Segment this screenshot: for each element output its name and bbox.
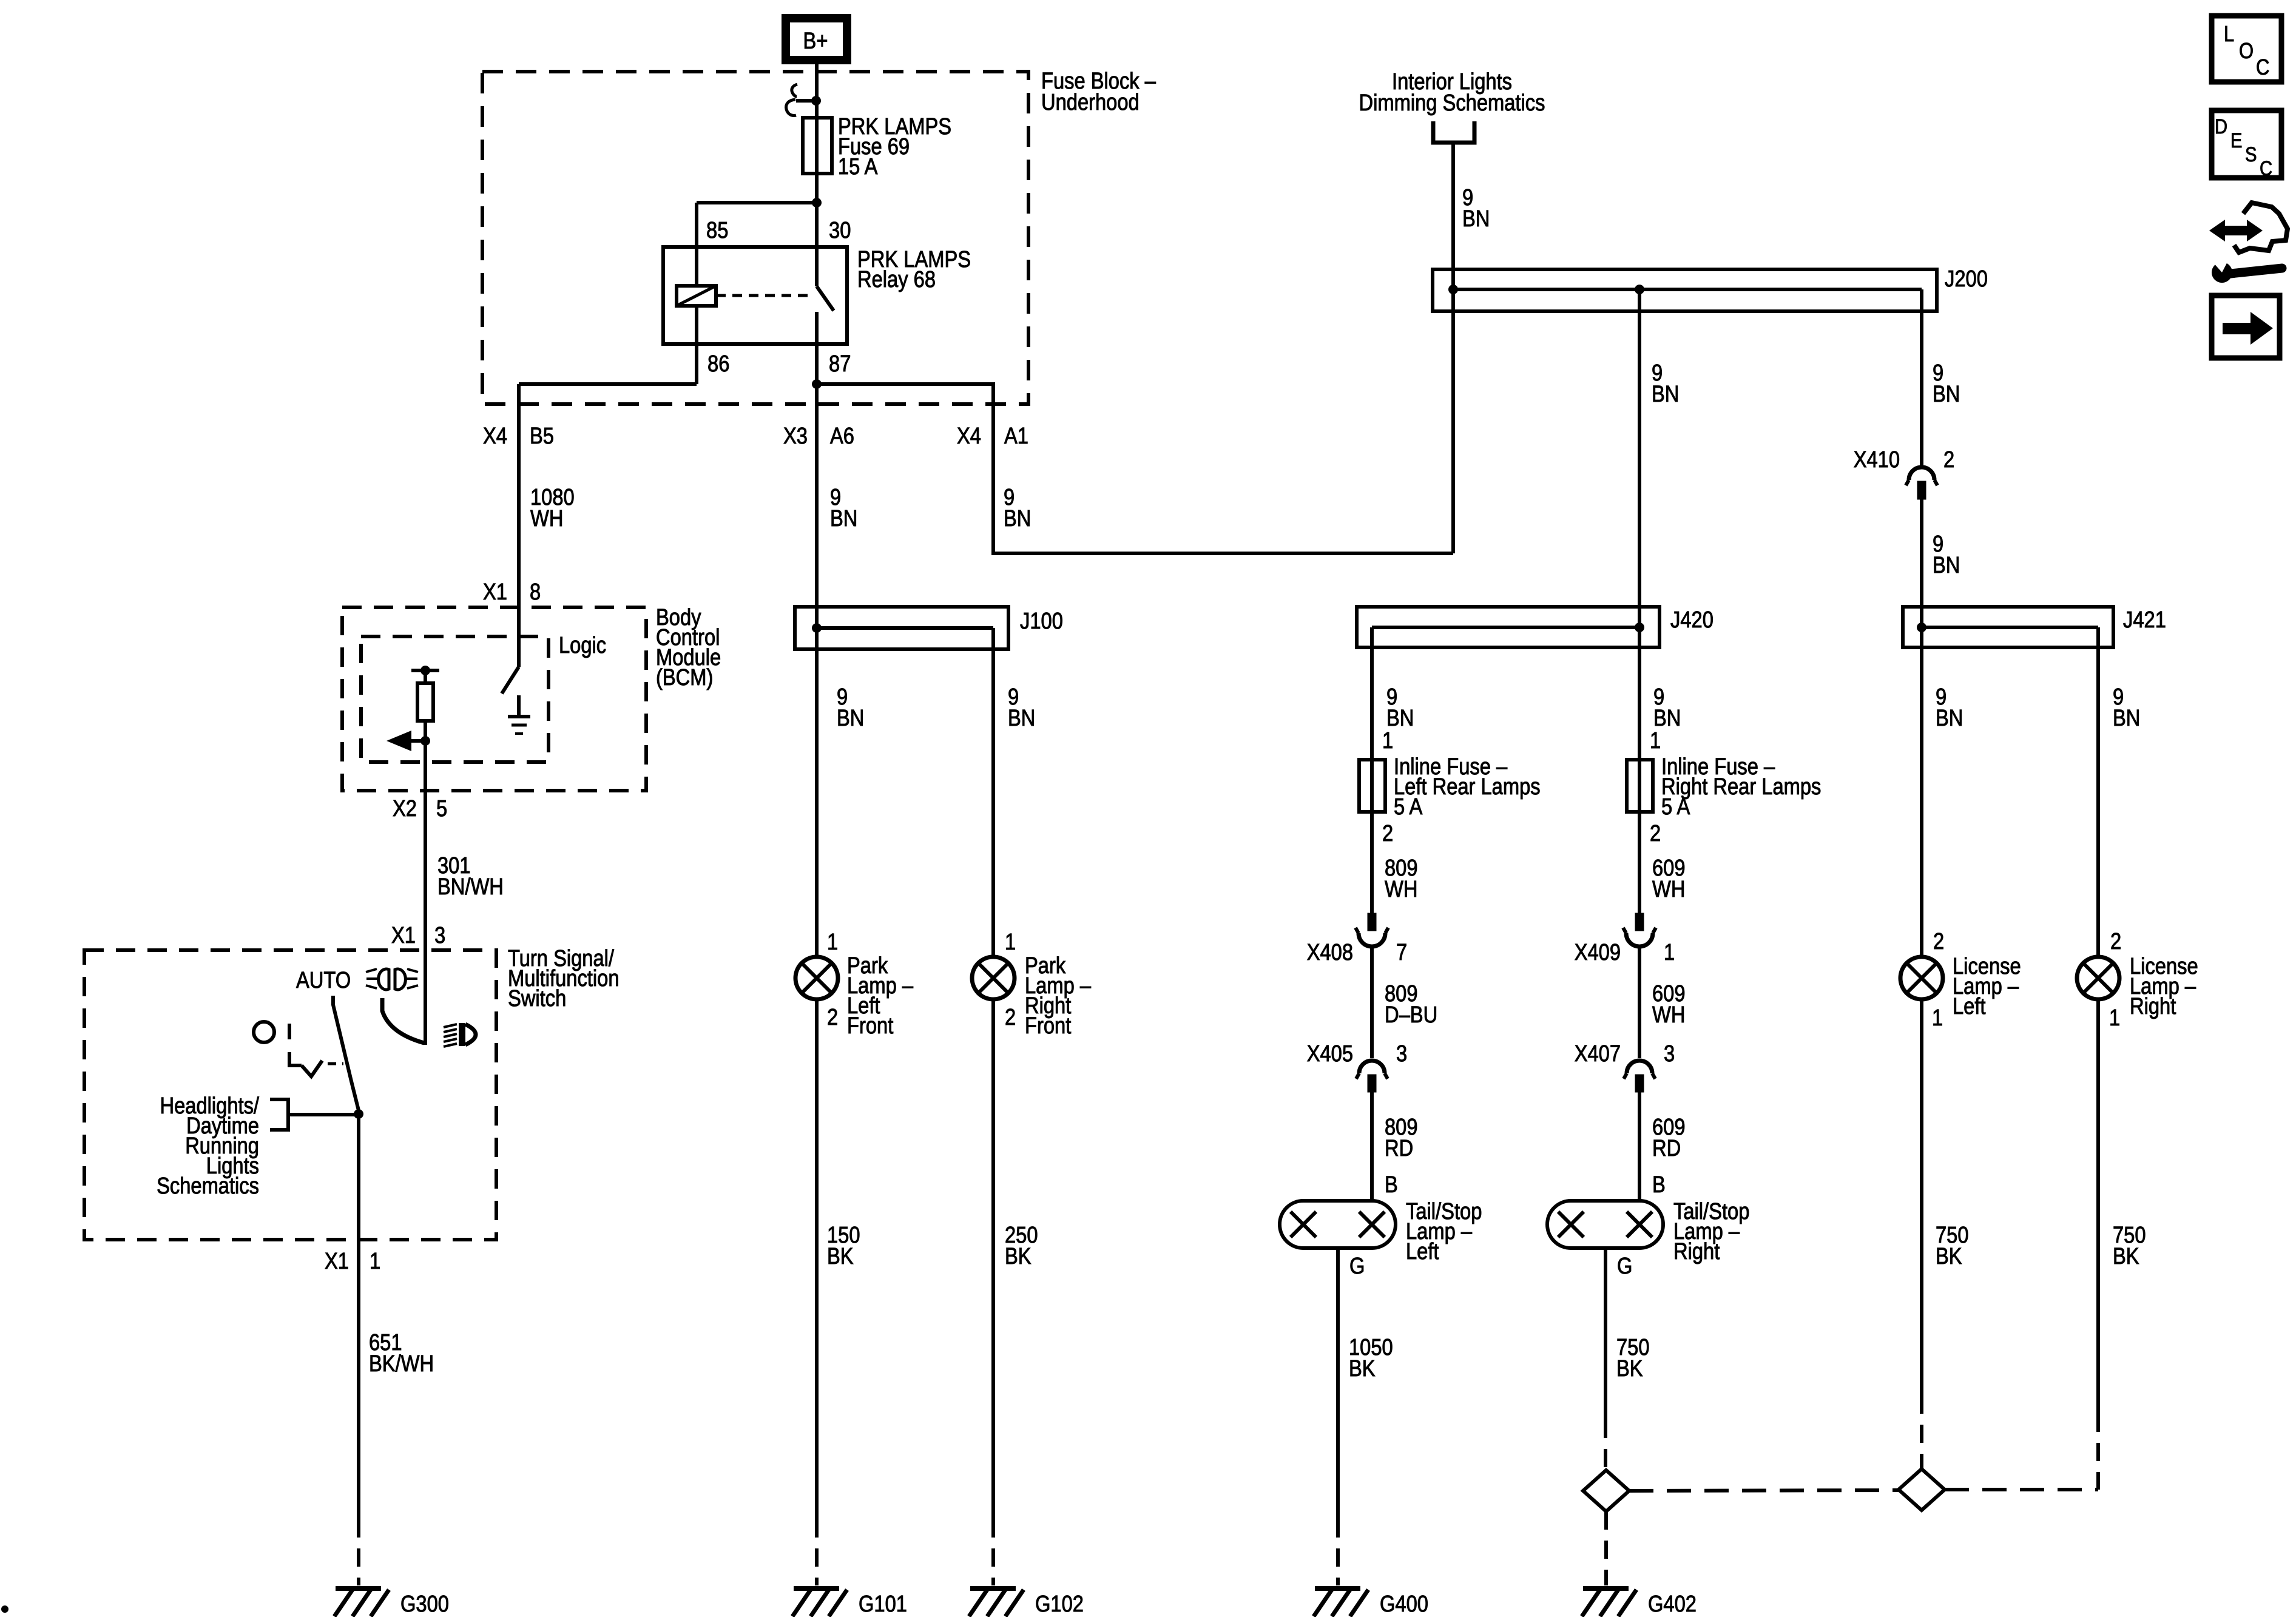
svg-text:BN: BN (1933, 382, 1960, 407)
pin 1 label right inline fuse (1650, 728, 1661, 754)
svg-text:WH: WH (1652, 1002, 1685, 1028)
svg-text:85: 85 (706, 218, 728, 243)
ground net diamond license (1899, 1469, 1945, 1510)
svg-text:1: 1 (2109, 1005, 2120, 1031)
J100 label (1020, 609, 1063, 634)
svg-text:Switch: Switch (508, 986, 566, 1011)
connector view icon (2207, 203, 2288, 283)
svg-text:G102: G102 (1035, 1592, 1084, 1617)
svg-text:WH: WH (1385, 877, 1417, 902)
wire label 9 BN (left rear) (1386, 684, 1414, 731)
license lamp right label (2130, 954, 2198, 1019)
wire label 9 BN (A6) (830, 485, 857, 532)
svg-text:X409: X409 (1575, 940, 1621, 965)
svg-text:B: B (1385, 1172, 1398, 1198)
logic label (559, 633, 606, 658)
svg-text:1: 1 (1650, 728, 1661, 754)
pin B label left tail lamp (1385, 1172, 1398, 1198)
relay pin 85 label (706, 218, 728, 243)
svg-text:WH: WH (1652, 877, 1685, 902)
svg-text:5: 5 (436, 796, 447, 822)
pin G label right tail lamp (1617, 1254, 1632, 1279)
wire dashed to G102 (991, 1519, 995, 1585)
svg-text:O: O (2239, 38, 2254, 63)
svg-text:7: 7 (1396, 940, 1407, 965)
svg-text:BN: BN (1386, 706, 1414, 731)
svg-text:87: 87 (829, 351, 851, 377)
BCM input switch arm (502, 667, 519, 694)
pin 1 label left park lamp (827, 930, 838, 955)
junction node fuse output (812, 198, 822, 208)
wire right park lamp to G102 (991, 999, 995, 1519)
wire dashed right license to ground bus (1945, 1414, 2098, 1490)
wire pin 87 to X4 A1 and across to J200 riser (817, 384, 1453, 553)
pin 1 label left license lamp (1932, 1005, 1943, 1031)
wire dashed right tail lamp to diamond (1604, 1420, 1607, 1470)
wire label 1050 BK (1349, 1335, 1393, 1382)
wire label 609 RD (1652, 1115, 1686, 1161)
svg-text:X4: X4 (957, 424, 981, 449)
pin 2 label left license lamp (1933, 929, 1944, 954)
svg-text:8: 8 (530, 579, 541, 605)
svg-text:3: 3 (1396, 1041, 1407, 1067)
svg-text:2: 2 (2110, 929, 2121, 954)
svg-text:X408: X408 (1307, 940, 1353, 965)
wire fuse output to relay coil pin 85 (697, 203, 817, 286)
svg-text:Left: Left (1953, 994, 1986, 1019)
svg-text:Dimming Schematics: Dimming Schematics (1359, 90, 1545, 116)
svg-text:1: 1 (1382, 728, 1393, 754)
LOC icon box (2212, 16, 2281, 82)
pin 1 label right license lamp (2109, 1005, 2120, 1031)
J421 label (2123, 607, 2166, 633)
fuse F69 PRK LAMPS 15A (803, 118, 832, 174)
svg-text:3: 3 (1664, 1041, 1675, 1067)
svg-text:1: 1 (1932, 1005, 1943, 1031)
svg-text:X2: X2 (393, 796, 417, 822)
pin 1 label left inline fuse (1382, 728, 1393, 754)
pin labels X2 5 (393, 796, 447, 822)
tail stop lamp left label (1406, 1199, 1482, 1264)
J200 label (1945, 266, 1988, 292)
wire label 9 BN (left park) (837, 684, 864, 731)
wire J200 to J420 (1638, 289, 1641, 627)
BCM output arrow (387, 731, 430, 751)
dashed ground bus between diamonds (1629, 1490, 1899, 1491)
svg-text:2: 2 (1933, 929, 1944, 954)
ground G101 (792, 1588, 907, 1617)
wire label 301 BN/WH (437, 853, 504, 900)
relay actuating dashed link (716, 294, 812, 297)
svg-text:X1: X1 (483, 579, 507, 605)
fuse 69 labels (838, 114, 951, 180)
wire pin 87 down to X3 A6 (815, 312, 819, 628)
svg-text:BK: BK (1349, 1356, 1376, 1382)
svg-text:D–BU: D–BU (1385, 1002, 1437, 1028)
svg-text:G402: G402 (1648, 1592, 1697, 1617)
license lamp left label (1953, 954, 2021, 1019)
wire label 9 BN (X410 feed) (1933, 360, 1960, 407)
svg-text:1: 1 (827, 930, 838, 955)
turn signal multifunction switch dashed box (84, 950, 496, 1240)
wire label 750 BK (license right) (2113, 1223, 2146, 1269)
headlights schematics bracket (270, 1099, 359, 1130)
splice pack J421 (1903, 607, 2113, 647)
wire left park lamp to G101 (815, 999, 819, 1519)
wire label 609 WH (upper) (1652, 856, 1686, 902)
svg-text:Right: Right (2130, 994, 2176, 1019)
wire switch output to X1 1 circuit 651 (357, 1114, 360, 1519)
inline fuse right labels (1661, 754, 1821, 820)
switch output junction (354, 1109, 363, 1119)
wire dashed to G101 (815, 1519, 819, 1585)
detent linkage (289, 1024, 343, 1076)
wire X407 to right tail lamp circuit 609 RD (1638, 1092, 1641, 1201)
ground G102 (969, 1588, 1084, 1617)
wire BCM X2 5 to switch X1 3 circuit 301 (424, 741, 427, 1045)
connector X410 pin 2 (1854, 447, 1955, 499)
park lamp left front (795, 957, 838, 999)
tail stop lamp right (1547, 1201, 1663, 1248)
relay pin 87 label (829, 351, 851, 377)
svg-text:RD: RD (1652, 1136, 1681, 1161)
svg-text:RD: RD (1385, 1136, 1413, 1161)
svg-text:BN: BN (1653, 706, 1681, 731)
svg-text:S: S (2245, 143, 2257, 166)
wire label 9 BN (J421 feed) (1933, 532, 1960, 578)
svg-text:5 A: 5 A (1394, 794, 1423, 820)
svg-text:BK: BK (827, 1244, 854, 1269)
B+ power symbol (786, 18, 847, 60)
relay labels (857, 247, 971, 292)
wire label 609 WH (lower) (1652, 981, 1686, 1028)
wire label 9 BN (license right) (2113, 684, 2140, 731)
wire dashed to G400 (1336, 1519, 1340, 1585)
svg-text:BN: BN (1008, 706, 1035, 731)
svg-text:WH: WH (530, 506, 563, 532)
J200 junction mid (1635, 285, 1644, 294)
svg-text:B: B (1652, 1172, 1666, 1198)
wire label 9 BN (license left) (1936, 684, 1963, 731)
park lamp right front label (1025, 953, 1092, 1039)
pin 2 label right license lamp (2110, 929, 2121, 954)
license lamp right (2077, 957, 2119, 999)
wire label 250 BK (1005, 1223, 1038, 1269)
svg-text:X407: X407 (1575, 1041, 1621, 1067)
pin labels X4 B5 (483, 424, 554, 449)
svg-text:1: 1 (1005, 930, 1016, 955)
wire label 651 BK/WH (369, 1330, 434, 1377)
svg-text:AUTO: AUTO (296, 968, 351, 993)
svg-text:30: 30 (829, 218, 851, 243)
connector X407 pin 3 (1575, 1041, 1675, 1092)
license lamp left (1900, 957, 1943, 999)
svg-text:BN: BN (1462, 206, 1490, 232)
svg-text:C: C (2256, 55, 2269, 79)
svg-text:2: 2 (827, 1005, 838, 1030)
svg-text:J421: J421 (2123, 607, 2166, 633)
svg-text:(BCM): (BCM) (656, 665, 713, 690)
wire relay coil pin 86 to connector X4 B5 (519, 306, 697, 667)
svg-text:X1: X1 (325, 1249, 349, 1274)
fuse block underhood dashed box (482, 72, 1028, 404)
wire label 9 BN (interior) (1462, 185, 1490, 232)
pin labels X3 A6 (783, 424, 854, 449)
svg-text:Front: Front (1025, 1013, 1072, 1039)
wire dashed to G300 (357, 1519, 360, 1585)
wire label 750 BK (license left) (1936, 1223, 1969, 1269)
wire label 9 BN (J420 feed) (1652, 360, 1679, 407)
pin labels X4 A1 (957, 424, 1028, 449)
J100 junction (812, 623, 822, 633)
ground G402 (1582, 1588, 1697, 1617)
junction node pin 87 (812, 379, 822, 389)
svg-text:X4: X4 (483, 424, 507, 449)
svg-text:5 A: 5 A (1661, 794, 1690, 820)
svg-text:E: E (2230, 129, 2243, 152)
wire label 9 BN (right rear) (1653, 684, 1681, 731)
pin labels X1 1 (325, 1249, 380, 1274)
relay switch arm (817, 286, 834, 311)
ground G400 (1314, 1588, 1428, 1617)
svg-text:Logic: Logic (559, 633, 606, 658)
wire label 809 RD (1385, 1115, 1418, 1161)
wire label 1080 WH (530, 485, 575, 532)
svg-text:1: 1 (1664, 940, 1675, 965)
svg-text:Front: Front (847, 1013, 894, 1039)
wire label 809 D-BU (1385, 981, 1437, 1028)
pin 2 label right park lamp (1005, 1005, 1016, 1030)
wire X410 to J421 (1920, 499, 1923, 627)
svg-text:X405: X405 (1307, 1041, 1353, 1067)
splice pack J420 (1357, 607, 1660, 647)
splice pack J100 (795, 607, 1008, 649)
wire X408 to X405 circuit 809 D-BU (1370, 947, 1374, 1058)
wire J421 to left license lamp (1920, 627, 1923, 957)
park lamps contact curve (382, 998, 424, 1043)
svg-text:Left: Left (1406, 1239, 1439, 1264)
inline fuse left labels (1394, 754, 1541, 820)
J420 label (1670, 607, 1714, 633)
tail stop lamp right label (1673, 1199, 1749, 1264)
wire right tail lamp to ground net circuit 750 BK (1604, 1248, 1607, 1420)
svg-text:BN: BN (2113, 706, 2140, 731)
wire J420 to right inline fuse (1638, 627, 1641, 913)
BCM pull-up node (411, 666, 439, 675)
svg-text:G400: G400 (1380, 1592, 1428, 1617)
wire J200 to X410 (1920, 289, 1923, 466)
BCM logic dashed box (361, 636, 549, 762)
wire label 150 BK (827, 1223, 860, 1269)
svg-text:BN: BN (1936, 706, 1963, 731)
svg-text:BK: BK (1616, 1356, 1643, 1382)
svg-text:Relay 68: Relay 68 (857, 267, 936, 292)
svg-text:BN: BN (837, 706, 864, 731)
wire dashed diamond to G402 (1604, 1511, 1608, 1585)
splice pack J200 (1433, 269, 1937, 311)
wire right license lamp down circuit 750 BK (2096, 999, 2100, 1414)
svg-text:B+: B+ (803, 29, 828, 54)
BCM resistor (417, 670, 433, 741)
svg-text:BK: BK (1005, 1244, 1032, 1269)
svg-text:Schematics: Schematics (157, 1173, 259, 1199)
pin B label right tail lamp (1652, 1172, 1666, 1198)
svg-text:X1: X1 (391, 923, 416, 948)
wire J100 to right park lamp (991, 628, 995, 957)
connector X408 pin 7 (1307, 913, 1408, 965)
relay K68 PRK LAMPS box (663, 247, 847, 344)
park lamp right front (972, 957, 1015, 999)
wire interior lights to J200 (1451, 143, 1455, 553)
headlights daytime running lights schematics label (157, 1093, 259, 1199)
svg-text:D: D (2215, 115, 2227, 138)
page corner mark (1, 1605, 8, 1613)
svg-text:G: G (1617, 1254, 1632, 1279)
interior lights bracket (1433, 121, 1474, 143)
relay pin 86 label (707, 351, 729, 377)
wire J420 to left inline fuse (1370, 627, 1374, 913)
body control module dashed box (342, 607, 646, 791)
wire B+ to fuse 69 and relay pin 30 (815, 64, 819, 286)
svg-text:J200: J200 (1945, 266, 1988, 292)
svg-text:1: 1 (370, 1249, 380, 1274)
DESC icon box (2212, 110, 2281, 180)
svg-text:BN: BN (1004, 506, 1031, 532)
relay pin 30 label (829, 218, 851, 243)
connector X405 pin 3 (1307, 1041, 1408, 1092)
fuse block label (1041, 69, 1156, 115)
svg-text:BK: BK (1936, 1244, 1962, 1269)
BCM internal ground (508, 695, 530, 734)
go-to arrow icon box (2212, 295, 2280, 358)
svg-text:BN/WH: BN/WH (437, 874, 504, 900)
wire label 750 BK (tail) (1616, 1335, 1650, 1382)
wire J100 to left park lamp (815, 628, 819, 957)
wire dashed left license to diamond (1920, 1396, 1923, 1469)
svg-text:BN: BN (1652, 382, 1679, 407)
J420 junction (1635, 623, 1644, 632)
switch name label (508, 946, 620, 1011)
off position circle (254, 1022, 274, 1042)
svg-text:2: 2 (1943, 447, 1954, 473)
park lamp left front label (847, 953, 914, 1039)
svg-text:C: C (2260, 157, 2272, 180)
ground net diamond G402 (1583, 1470, 1629, 1511)
pin 1 label right park lamp (1005, 930, 1016, 955)
svg-text:Right: Right (1673, 1239, 1720, 1264)
relay coil (677, 286, 716, 306)
wire X409 to X407 circuit 609 WH (1638, 947, 1641, 1058)
svg-text:J420: J420 (1670, 607, 1714, 633)
wire label 9 BN (A1) (1004, 485, 1031, 532)
svg-text:15 A: 15 A (838, 154, 878, 180)
pin 2 label right inline fuse (1650, 821, 1661, 846)
inline fuse right rear lamps 5A (1627, 760, 1653, 812)
svg-text:2: 2 (1650, 821, 1661, 846)
fuse block clip connector (786, 84, 821, 116)
svg-text:2: 2 (1382, 821, 1393, 846)
headlamp beam icon (444, 1023, 476, 1047)
svg-text:G: G (1349, 1254, 1365, 1279)
svg-text:BN: BN (830, 506, 857, 532)
pin 2 label left inline fuse (1382, 821, 1393, 846)
svg-text:X410: X410 (1854, 447, 1900, 473)
wire J421 to right license lamp (2096, 627, 2100, 957)
inline fuse left rear lamps 5A (1359, 760, 1385, 812)
interior lights dimming schematics label (1359, 69, 1545, 116)
svg-text:J100: J100 (1020, 609, 1063, 634)
svg-text:BN: BN (1933, 553, 1960, 578)
pin G label left tail lamp (1349, 1254, 1365, 1279)
pin labels X1 8 (483, 579, 541, 605)
svg-text:BK: BK (2113, 1244, 2139, 1269)
svg-text:G101: G101 (859, 1592, 907, 1617)
svg-text:2: 2 (1005, 1005, 1016, 1030)
wire label 9 BN (right park) (1008, 684, 1035, 731)
svg-text:BK/WH: BK/WH (369, 1351, 434, 1377)
svg-text:Underhood: Underhood (1041, 90, 1140, 115)
tail stop lamp left (1280, 1201, 1396, 1248)
pin 2 label left park lamp (827, 1005, 838, 1030)
ground G300 (334, 1588, 449, 1617)
J200 junction left (1448, 285, 1458, 294)
wire left license lamp down circuit 750 BK (1920, 999, 1923, 1396)
BCM name label (656, 605, 721, 690)
svg-text:B5: B5 (530, 424, 554, 449)
switch movable arm (333, 996, 359, 1110)
connector X409 pin 1 (1575, 913, 1675, 965)
wire left tail lamp to G400 circuit 1050 BK (1336, 1248, 1340, 1519)
svg-text:A6: A6 (830, 424, 854, 449)
svg-text:X3: X3 (783, 424, 808, 449)
wire X405 to left tail lamp circuit 809 RD (1370, 1092, 1374, 1201)
J421 junction (1917, 623, 1926, 632)
svg-text:3: 3 (434, 923, 445, 948)
svg-text:A1: A1 (1004, 424, 1028, 449)
AUTO position label (296, 968, 351, 993)
pin labels X1 3 (391, 923, 445, 948)
wire label 809 WH (1385, 856, 1418, 902)
svg-text:G300: G300 (400, 1592, 449, 1617)
svg-text:L: L (2224, 21, 2234, 46)
park lamps position icon (366, 969, 418, 990)
svg-text:86: 86 (707, 351, 729, 377)
